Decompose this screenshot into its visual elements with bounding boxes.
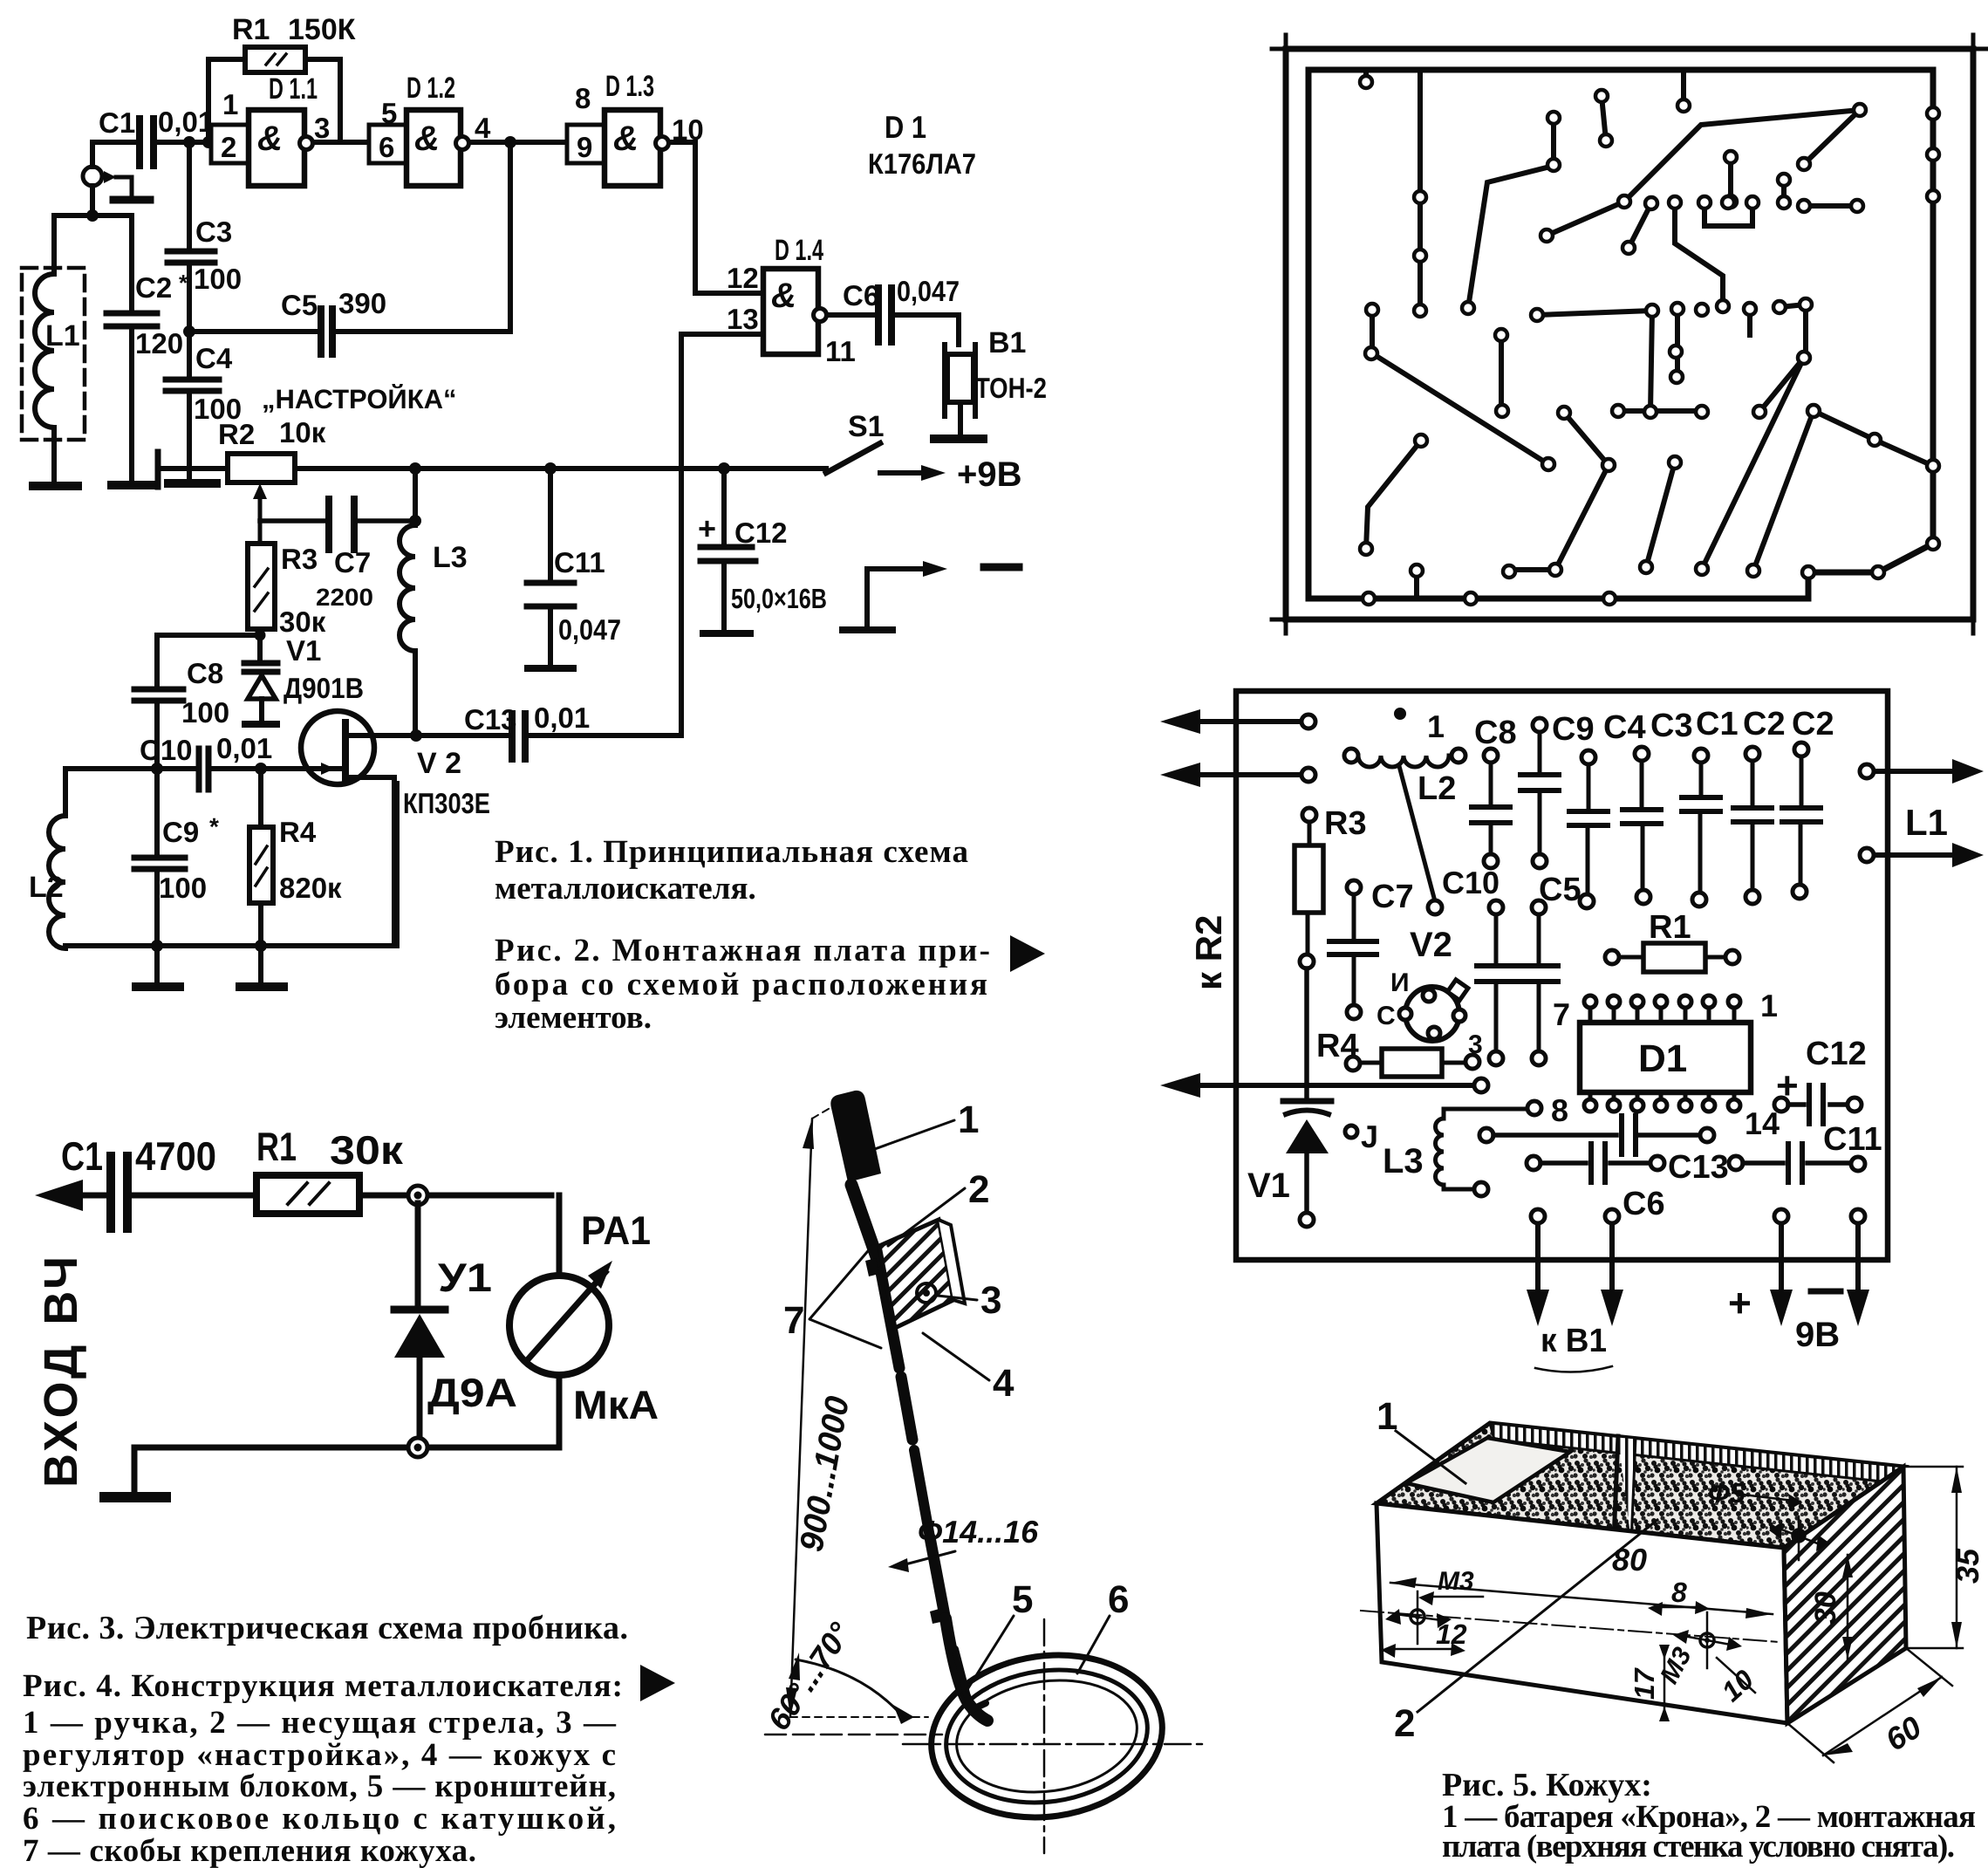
capacitor C9 bbox=[134, 769, 219, 946]
svg-text:7 — скобы крепления кожуха.: 7 — скобы крепления кожуха. bbox=[23, 1833, 476, 1868]
svg-text:12: 12 bbox=[727, 262, 759, 294]
pcb trace W bbox=[1753, 411, 1814, 571]
electronics housing (4) bbox=[879, 1220, 965, 1328]
svg-text:S1: S1 bbox=[848, 410, 885, 443]
wire pin13 to C13 bbox=[681, 334, 763, 736]
svg-text:С13: С13 bbox=[1668, 1149, 1729, 1186]
bracket (5) bbox=[955, 1649, 986, 1710]
ground R4 bbox=[240, 982, 284, 991]
svg-text:+9В: +9В bbox=[957, 455, 1022, 494]
pcb trace AB bbox=[1509, 413, 1609, 570]
gate D1.4 bbox=[727, 234, 856, 367]
svg-text:C2: C2 bbox=[135, 271, 172, 304]
dimension 80 bbox=[1390, 1542, 1773, 1618]
pcb trace L bbox=[1704, 202, 1752, 226]
capacitor C5 bbox=[189, 287, 510, 354]
length dimension 900...1000 bbox=[786, 1101, 928, 1717]
capacitor C6 bbox=[827, 275, 960, 345]
antenna connector X1 bbox=[83, 142, 150, 200]
svg-text:C5: C5 bbox=[281, 289, 318, 321]
enclosure front wall bbox=[1377, 1503, 1787, 1723]
pcb trace Q bbox=[1675, 309, 1680, 377]
svg-text:C1: C1 bbox=[1696, 706, 1739, 742]
svg-text:Ј: Ј bbox=[1361, 1119, 1378, 1154]
svg-text:35: 35 bbox=[1950, 1548, 1985, 1584]
svg-text:9: 9 bbox=[577, 131, 592, 163]
vertical capacitor C10 body (fig2) bbox=[1477, 900, 1515, 1065]
resistor R4 bbox=[249, 769, 342, 983]
leader 4 bbox=[923, 1333, 1014, 1405]
svg-text:390: 390 bbox=[338, 287, 386, 319]
vertical capacitor C8 (fig2) bbox=[1472, 715, 1517, 868]
svg-text:+: + bbox=[1776, 1064, 1799, 1107]
bottom wire (fig3) bbox=[134, 1438, 559, 1494]
resistor R3 (fig2) bbox=[1295, 805, 1367, 968]
pcb trace C bbox=[1551, 118, 1556, 165]
resistor R3 with wiper arrow bbox=[248, 483, 326, 659]
svg-text:МкА: МкА bbox=[573, 1382, 659, 1427]
diode V1 D9A (fig3) bbox=[394, 1203, 517, 1440]
svg-text:C7: C7 bbox=[334, 546, 371, 578]
svg-text:1: 1 bbox=[222, 88, 238, 120]
svg-text:М3: М3 bbox=[1438, 1567, 1474, 1596]
svg-text:150К: 150К bbox=[288, 13, 356, 46]
svg-text:30: 30 bbox=[1809, 1591, 1842, 1625]
vertical capacitor C1 (fig2) bbox=[1682, 706, 1739, 907]
left output arrow 1 bbox=[1160, 709, 1315, 734]
power rail +9V bbox=[158, 452, 826, 487]
svg-text:3: 3 bbox=[314, 112, 330, 144]
screw hole right M3 bbox=[1655, 1612, 1742, 1688]
svg-text:0,047: 0,047 bbox=[897, 275, 960, 307]
pcb trace G bbox=[1804, 110, 1860, 164]
dimension 10 bbox=[1716, 1658, 1760, 1707]
svg-text:30к: 30к bbox=[330, 1127, 404, 1173]
svg-text:PA1: PA1 bbox=[581, 1208, 651, 1253]
svg-text:R1: R1 bbox=[232, 13, 270, 46]
left output arrow 2 bbox=[1160, 763, 1315, 787]
pcb pads bbox=[1360, 76, 1939, 605]
svg-text:1: 1 bbox=[1760, 988, 1778, 1023]
svg-text:3: 3 bbox=[980, 1279, 1001, 1322]
vertical capacitor C2 b (fig2) bbox=[1782, 706, 1834, 899]
svg-text:820к: 820к bbox=[279, 872, 342, 904]
svg-text:100: 100 bbox=[194, 263, 242, 295]
capacitor C6 (fig2) bbox=[1527, 1144, 1665, 1222]
svg-text:+: + bbox=[698, 510, 716, 546]
varicap V1 D901B bbox=[157, 629, 364, 724]
svg-text:электронным блоком, 5 — кроншт: электронным блоком, 5 — кронштейн, bbox=[23, 1769, 616, 1804]
enclosure top opening (speckled interior) bbox=[1377, 1423, 1903, 1548]
svg-text:Рис. 4. Конструкция металлоиск: Рис. 4. Конструкция металлоискателя: bbox=[23, 1668, 623, 1704]
svg-text:C2: C2 bbox=[1792, 706, 1834, 742]
svg-text:8: 8 bbox=[575, 82, 591, 114]
pcb trace D bbox=[1602, 96, 1606, 140]
svg-text:Рис. 1. Принципиальная схема: Рис. 1. Принципиальная схема bbox=[495, 834, 968, 870]
pcb trace B bbox=[1418, 70, 1423, 311]
drain wire / capacitor C13 bbox=[345, 701, 681, 759]
svg-text:C9: C9 bbox=[1552, 711, 1595, 748]
svg-text:к R2: к R2 bbox=[1188, 915, 1229, 990]
ground C4 bbox=[168, 479, 216, 488]
pcb trace R bbox=[1747, 309, 1752, 335]
svg-text:100: 100 bbox=[159, 872, 207, 904]
svg-text:Рис. 2. Монтажная плата при-: Рис. 2. Монтажная плата при- bbox=[495, 933, 990, 968]
transistor V2 (fig2) bbox=[1377, 926, 1483, 1059]
svg-text:C13: C13 bbox=[464, 703, 517, 736]
resistor R2 bbox=[218, 383, 457, 482]
wire D1.3 out to D1.4 pin 12 bbox=[669, 142, 763, 293]
capacitor C1 (fig3) bbox=[61, 1133, 255, 1228]
transistor V2 KP303E bbox=[300, 711, 490, 946]
leader 5 bbox=[967, 1578, 1033, 1691]
svg-text:8: 8 bbox=[1671, 1577, 1687, 1608]
svg-text:регулятор «настройка», 4 — кож: регулятор «настройка», 4 — кожух с bbox=[23, 1737, 616, 1773]
svg-text:Ф5: Ф5 bbox=[1708, 1477, 1746, 1509]
resistor R1 bbox=[208, 13, 356, 142]
svg-text:C4: C4 bbox=[195, 342, 233, 374]
capacitor C7 bbox=[260, 499, 415, 611]
bottom arrow -9V bbox=[1847, 1209, 1869, 1326]
svg-text:5: 5 bbox=[381, 97, 397, 129]
svg-text:V2: V2 bbox=[1410, 926, 1452, 964]
screw hole left M3 bbox=[1385, 1567, 1483, 1644]
svg-text:2200: 2200 bbox=[316, 584, 373, 611]
pcb trace Y bbox=[1372, 310, 1548, 464]
pcb trace P bbox=[1618, 408, 1702, 414]
angle label 60...70 bbox=[761, 1616, 942, 1737]
svg-text:+: + bbox=[1728, 1280, 1752, 1325]
svg-text:&: & bbox=[257, 120, 283, 158]
svg-text:L2: L2 bbox=[1418, 770, 1456, 807]
capacitor C11 bbox=[527, 469, 621, 668]
svg-text:1: 1 bbox=[1427, 708, 1445, 744]
pointer triangle fig2 bbox=[1010, 935, 1045, 972]
leader 2 bbox=[888, 1168, 989, 1246]
dimension 35 bbox=[1903, 1467, 1985, 1648]
svg-text:D 1: D 1 bbox=[885, 109, 926, 145]
svg-text:Рис. 3. Электрическая схема пр: Рис. 3. Электрическая схема пробника. bbox=[26, 1610, 628, 1646]
inductor L3 (fig2) bbox=[1383, 1101, 1541, 1196]
svg-text:КП303Е: КП303Е bbox=[403, 787, 490, 819]
svg-text:V1: V1 bbox=[286, 634, 321, 667]
gate D1.2 bbox=[369, 72, 491, 186]
svg-text:L2: L2 bbox=[29, 871, 64, 904]
svg-text:5: 5 bbox=[1012, 1578, 1033, 1621]
bottom arrow к B1 b bbox=[1601, 1209, 1623, 1326]
pcb trace H bbox=[1468, 166, 1554, 308]
svg-text:С11: С11 bbox=[1823, 1121, 1882, 1158]
dimension 30 bbox=[1809, 1555, 1853, 1659]
svg-text:8: 8 bbox=[1551, 1092, 1568, 1128]
pcb trace I bbox=[1728, 157, 1733, 202]
svg-text:D 1.4: D 1.4 bbox=[775, 234, 823, 267]
svg-text:С: С bbox=[1377, 1002, 1396, 1030]
ground C9 bbox=[136, 982, 180, 991]
pcb trace A bbox=[1363, 70, 1369, 82]
inductor L3 bbox=[400, 469, 468, 736]
pointer triangle fig4 bbox=[640, 1665, 675, 1701]
svg-text:С9: С9 bbox=[162, 816, 199, 848]
search ring with coil (6) bbox=[920, 1640, 1172, 1831]
svg-text:„НАСТРОЙКА“: „НАСТРОЙКА“ bbox=[262, 383, 457, 414]
wire D1.1 to D1.2 bbox=[313, 140, 369, 145]
test point J bbox=[1345, 1119, 1378, 1154]
dimension 17 bbox=[1629, 1645, 1670, 1721]
capacitor C11 (fig2) bbox=[1729, 1121, 1882, 1182]
svg-text:R4: R4 bbox=[1316, 1028, 1359, 1064]
svg-text:L3: L3 bbox=[1383, 1142, 1424, 1180]
gate D1.3 bbox=[567, 70, 704, 186]
svg-text:ТОН-2: ТОН-2 bbox=[975, 372, 1047, 404]
svg-text:C4: C4 bbox=[1603, 709, 1646, 746]
leader 7 bbox=[783, 1246, 881, 1348]
resistor R4 (fig2) bbox=[1316, 1028, 1479, 1077]
svg-text:элементов.: элементов. bbox=[495, 1000, 652, 1036]
pcb trace X bbox=[1814, 411, 1933, 466]
svg-text:13: 13 bbox=[727, 303, 759, 335]
capacitor C13 (fig2) bbox=[1479, 1116, 1729, 1186]
svg-text:D1: D1 bbox=[1638, 1037, 1687, 1080]
pcb trace U bbox=[1702, 358, 1804, 569]
svg-text:R4: R4 bbox=[279, 816, 317, 848]
gate D1.1 bbox=[211, 72, 330, 186]
capacitor C10 terminal (fig2) bbox=[1428, 865, 1500, 914]
input arrow ВХОД ВЧ bbox=[35, 1180, 109, 1488]
svg-text:4: 4 bbox=[993, 1362, 1014, 1405]
svg-text:C12: C12 bbox=[734, 517, 788, 549]
diode V1 (fig2) bbox=[1247, 968, 1331, 1227]
svg-text:80: 80 bbox=[1612, 1542, 1647, 1577]
pcb outer board edge bbox=[1272, 35, 1987, 633]
bottom arrow к B1 a bbox=[1527, 1209, 1549, 1326]
leader 1 bbox=[872, 1098, 979, 1150]
resistor R1 (fig2) bbox=[1605, 909, 1739, 972]
dimension 8 bbox=[1648, 1577, 1710, 1616]
svg-text:Ф14...16: Ф14...16 bbox=[918, 1514, 1039, 1550]
ground L1 bbox=[33, 482, 78, 490]
svg-text:R1: R1 bbox=[1649, 909, 1691, 946]
pcb trace T bbox=[1759, 358, 1804, 412]
pcb trace K bbox=[1804, 203, 1857, 209]
label D1 K176LA7 bbox=[868, 109, 976, 180]
svg-text:B1: B1 bbox=[988, 326, 1026, 359]
svg-text:2: 2 bbox=[221, 131, 236, 163]
wire bus left bbox=[183, 136, 215, 332]
svg-text:C3: C3 bbox=[195, 216, 232, 248]
svg-text:К176ЛА7: К176ЛА7 bbox=[868, 147, 976, 180]
capacitor C7 (fig2) bbox=[1329, 879, 1414, 1019]
IC D1 (fig2) bbox=[1551, 988, 1780, 1141]
svg-text:1: 1 bbox=[1377, 1395, 1397, 1438]
center lines of ring bbox=[903, 1619, 1202, 1853]
svg-text:С1: С1 bbox=[61, 1133, 103, 1179]
pcb trace AC bbox=[1414, 571, 1419, 599]
handle (1) bbox=[830, 1091, 881, 1182]
pcb trace AA bbox=[1366, 441, 1421, 549]
switch S1 bbox=[826, 410, 1022, 494]
vertical capacitor C5 (fig2) bbox=[1520, 872, 1582, 1065]
svg-text:C12: C12 bbox=[1806, 1036, 1867, 1072]
svg-text:ВХОД ВЧ: ВХОД ВЧ bbox=[35, 1253, 87, 1488]
headphone B1 TON-2 bbox=[945, 326, 1047, 437]
svg-text:R3: R3 bbox=[281, 543, 318, 575]
wire D1.2 to D1.3, node bbox=[469, 136, 567, 332]
svg-text:7: 7 bbox=[783, 1299, 804, 1342]
svg-text:R2: R2 bbox=[218, 418, 255, 450]
svg-text:металлоискателя.: металлоискателя. bbox=[495, 871, 756, 907]
key dot and 1 bbox=[1394, 708, 1445, 744]
battery Krona (1) bbox=[1406, 1438, 1570, 1502]
inductor L1 bbox=[22, 216, 85, 485]
wire node left bbox=[54, 186, 132, 222]
svg-text:C8: C8 bbox=[187, 657, 223, 689]
vertical capacitor C4 (fig2) bbox=[1569, 709, 1646, 908]
pcb trace M bbox=[1675, 202, 1723, 306]
svg-text:12: 12 bbox=[1436, 1618, 1467, 1650]
pcb trace Z bbox=[1499, 335, 1504, 411]
svg-text:0,01: 0,01 bbox=[534, 701, 590, 734]
svg-text:Рис. 5. Кожух:: Рис. 5. Кожух: bbox=[1442, 1767, 1652, 1803]
svg-text:к В1: к В1 bbox=[1541, 1323, 1607, 1359]
resistor R1 (fig3) bbox=[256, 1124, 551, 1214]
svg-text:14: 14 bbox=[1745, 1105, 1780, 1141]
svg-text:V 2: V 2 bbox=[417, 747, 461, 780]
svg-text:Д901В: Д901В bbox=[284, 672, 364, 704]
svg-text:4: 4 bbox=[475, 112, 491, 144]
svg-text:D 1.3: D 1.3 bbox=[605, 70, 654, 103]
bottom arrow +9V bbox=[1770, 1209, 1793, 1326]
dimension 12 bbox=[1381, 1618, 1467, 1658]
svg-text:6: 6 bbox=[1108, 1578, 1129, 1621]
svg-text:&: & bbox=[613, 120, 639, 158]
svg-text:50,0×16В: 50,0×16В bbox=[731, 583, 827, 614]
svg-text:L1: L1 bbox=[1905, 802, 1948, 843]
capacitor C2 bbox=[106, 216, 188, 483]
svg-text:Д9А: Д9А bbox=[427, 1370, 517, 1415]
leader 3 bbox=[938, 1279, 1001, 1322]
svg-text:6: 6 bbox=[379, 131, 394, 163]
svg-text:C11: C11 bbox=[554, 546, 605, 578]
svg-text:100: 100 bbox=[181, 696, 229, 729]
inductor L2 (fig2) bbox=[1344, 749, 1465, 901]
svg-text:9В: 9В bbox=[1795, 1316, 1840, 1354]
svg-text:C7: C7 bbox=[1371, 879, 1414, 915]
source return wire bbox=[65, 783, 397, 952]
svg-text:&: & bbox=[771, 277, 796, 315]
vertical capacitor C9 (fig2) bbox=[1520, 711, 1595, 868]
svg-text:L1: L1 bbox=[45, 319, 80, 352]
svg-text:2: 2 bbox=[968, 1168, 989, 1211]
minus terminal bbox=[843, 561, 1019, 630]
svg-text:R1: R1 bbox=[256, 1124, 297, 1169]
svg-text:1 — ручка, 2 — несущая стрела,: 1 — ручка, 2 — несущая стрела, 3 — bbox=[23, 1705, 617, 1741]
svg-text:C3: C3 bbox=[1650, 708, 1693, 744]
ground C2 bbox=[112, 481, 156, 489]
ground B1 bbox=[934, 434, 983, 443]
svg-text:С6: С6 bbox=[1623, 1186, 1665, 1222]
enclosure right wall bbox=[1784, 1467, 1906, 1723]
svg-text:*: * bbox=[209, 813, 219, 840]
svg-text:0,01: 0,01 bbox=[216, 732, 272, 764]
pcb trace V bbox=[1646, 462, 1675, 567]
carrying rod (2) bbox=[851, 1185, 987, 1721]
inductor L2 bbox=[29, 769, 65, 948]
capacitor C12 (fig2) bbox=[1774, 1036, 1867, 1124]
svg-text:120: 120 bbox=[135, 327, 183, 359]
svg-text:0,047: 0,047 bbox=[558, 613, 621, 646]
svg-text:D 1.1: D 1.1 bbox=[269, 72, 318, 106]
capacitor C1 bbox=[92, 106, 214, 166]
dimension 60 bbox=[1787, 1648, 1952, 1762]
meter PA1 bbox=[509, 1195, 659, 1447]
vertical capacitor C3 (fig2) bbox=[1623, 708, 1693, 904]
svg-text:10к: 10к bbox=[279, 416, 326, 448]
hole Ф5 bbox=[1708, 1477, 1830, 1560]
svg-text:2: 2 bbox=[1394, 1702, 1415, 1745]
svg-text:C2: C2 bbox=[1743, 706, 1786, 742]
pcb trace S bbox=[1780, 304, 1806, 358]
svg-text:&: & bbox=[414, 120, 440, 158]
right output arrows L1 bbox=[1860, 759, 1984, 867]
svg-text:11: 11 bbox=[825, 335, 856, 367]
pcb trace N bbox=[1629, 203, 1651, 248]
ground (fig3) bbox=[105, 1492, 166, 1502]
leader 1 (fig5) bbox=[1377, 1395, 1465, 1483]
diameter label Ф14...16 bbox=[888, 1514, 1039, 1572]
leader 2 (fig5) bbox=[1394, 1520, 1657, 1745]
svg-text:17: 17 bbox=[1629, 1666, 1660, 1700]
svg-text:С5: С5 bbox=[1539, 872, 1582, 908]
pcb inner trace border bbox=[1308, 70, 1933, 599]
pcb trace E bbox=[1681, 70, 1686, 106]
svg-text:V1: V1 bbox=[1247, 1167, 1290, 1205]
capacitor C12 electrolytic bbox=[698, 469, 827, 633]
pcb trace F bbox=[1547, 110, 1860, 236]
svg-text:7: 7 bbox=[1553, 996, 1570, 1032]
board outline fig2 bbox=[1236, 691, 1888, 1260]
svg-text:C6: C6 bbox=[843, 279, 879, 311]
svg-text:0,01: 0,01 bbox=[158, 106, 214, 138]
svg-text:D 1.2: D 1.2 bbox=[406, 72, 455, 105]
leader 6 bbox=[1077, 1578, 1129, 1673]
left output arrow 3 (к R2) bbox=[1160, 1073, 1488, 1098]
svg-text:C1: C1 bbox=[99, 106, 135, 139]
capacitor C3 bbox=[167, 216, 242, 295]
capacitor C4 bbox=[166, 325, 242, 482]
center line front wall bbox=[1361, 1611, 1780, 1642]
svg-text:плата (верхняя стенка условно: плата (верхняя стенка условно снята). bbox=[1442, 1829, 1955, 1865]
svg-text:С10: С10 bbox=[140, 734, 193, 766]
bottom labels bbox=[1535, 1280, 1841, 1372]
vertical capacitor C2 a (fig2) bbox=[1733, 706, 1786, 904]
pcb trace O bbox=[1537, 311, 1652, 412]
svg-text:L3: L3 bbox=[433, 541, 468, 574]
capacitor C8 bbox=[134, 635, 229, 769]
svg-text:R3: R3 bbox=[1324, 805, 1367, 842]
svg-text:И: И bbox=[1390, 968, 1410, 997]
svg-text:4700: 4700 bbox=[135, 1133, 216, 1179]
svg-text:У1: У1 bbox=[438, 1255, 492, 1300]
pcb trace J bbox=[1781, 180, 1786, 202]
svg-text:1: 1 bbox=[958, 1098, 979, 1141]
svg-text:C8: C8 bbox=[1474, 715, 1517, 751]
gate wire / C10 bbox=[65, 732, 300, 790]
